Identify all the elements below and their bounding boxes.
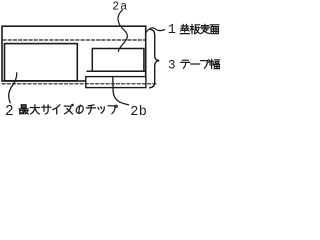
- svg-text:2b: 2b: [130, 105, 147, 120]
- svg-text:1: 1: [168, 23, 176, 38]
- svg-text:3: 3: [168, 59, 176, 73]
- svg-text:2a: 2a: [112, 1, 128, 14]
- svg-text:2: 2: [5, 104, 14, 120]
